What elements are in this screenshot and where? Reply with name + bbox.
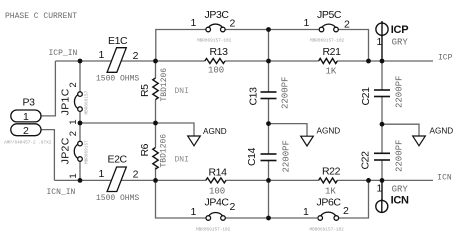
- svg-text:2: 2: [230, 201, 236, 213]
- svg-text:MBR069157-102: MBR069157-102: [310, 228, 345, 233]
- svg-text:GRY: GRY: [392, 184, 409, 194]
- svg-text:C21: C21: [360, 87, 372, 106]
- svg-text:AGND: AGND: [317, 127, 341, 136]
- svg-text:JP4C: JP4C: [205, 197, 230, 209]
- svg-text:1: 1: [377, 182, 383, 194]
- svg-text:1: 1: [377, 36, 383, 48]
- svg-text:JP2C: JP2C: [59, 137, 71, 164]
- svg-text:MBR069157-102: MBR069157-102: [197, 39, 232, 44]
- svg-text:1: 1: [68, 173, 79, 178]
- svg-text:1500 OHMS: 1500 OHMS: [96, 75, 139, 84]
- svg-text:ICN_IN: ICN_IN: [47, 188, 76, 197]
- svg-text:ICN: ICN: [437, 174, 452, 183]
- svg-text:C13: C13: [248, 87, 260, 106]
- svg-text:1: 1: [303, 206, 309, 218]
- svg-text:2: 2: [23, 125, 29, 137]
- svg-text:2200PF: 2200PF: [282, 140, 292, 172]
- svg-text:TBD1206: TBD1206: [160, 134, 169, 168]
- svg-text:AGND: AGND: [203, 127, 227, 136]
- svg-text:1: 1: [99, 49, 105, 61]
- svg-text:1K: 1K: [326, 67, 337, 77]
- svg-text:MBR069157-102: MBR069157-102: [196, 228, 231, 233]
- svg-text:MBR069157-102: MBR069157-102: [310, 39, 345, 44]
- svg-text:ICP: ICP: [391, 24, 408, 36]
- svg-text:1500 OHMS: 1500 OHMS: [96, 194, 139, 203]
- svg-text:2200PF: 2200PF: [281, 77, 291, 109]
- svg-text:AMP/640457-2 .87X2: AMP/640457-2 .87X2: [4, 141, 52, 146]
- svg-text:JP1C: JP1C: [59, 88, 71, 115]
- svg-text:100: 100: [209, 187, 225, 197]
- svg-text:DNI: DNI: [175, 156, 189, 165]
- svg-text:2: 2: [68, 131, 79, 136]
- svg-text:JP6C: JP6C: [317, 197, 342, 209]
- svg-text:2: 2: [68, 82, 79, 87]
- svg-text:TBD1206: TBD1206: [160, 68, 169, 102]
- svg-text:MBR069157: MBR069157: [85, 90, 90, 114]
- svg-text:R21: R21: [323, 46, 342, 58]
- svg-text:R13: R13: [210, 46, 229, 58]
- svg-text:1: 1: [304, 17, 310, 29]
- svg-text:AGND: AGND: [430, 127, 454, 136]
- svg-text:1: 1: [23, 111, 29, 123]
- svg-text:1: 1: [99, 168, 105, 180]
- svg-text:1: 1: [191, 206, 197, 218]
- svg-text:2: 2: [133, 50, 139, 62]
- svg-text:2: 2: [344, 19, 350, 31]
- svg-text:C14: C14: [246, 147, 258, 166]
- svg-text:C22: C22: [360, 151, 372, 170]
- svg-text:ICP: ICP: [438, 54, 453, 63]
- svg-text:P3: P3: [23, 97, 36, 109]
- svg-text:R6: R6: [139, 143, 151, 156]
- svg-text:2: 2: [133, 169, 139, 181]
- svg-text:ICN: ICN: [391, 194, 409, 206]
- svg-text:2: 2: [230, 18, 236, 30]
- svg-text:2200PF: 2200PF: [395, 76, 405, 108]
- svg-text:1: 1: [68, 120, 79, 125]
- svg-text:2200PF: 2200PF: [395, 140, 405, 172]
- svg-text:100: 100: [208, 66, 224, 76]
- svg-text:PHASE C CURRENT: PHASE C CURRENT: [5, 12, 77, 21]
- svg-text:JP5C: JP5C: [317, 9, 342, 21]
- svg-text:R5: R5: [139, 84, 151, 97]
- svg-text:GRY: GRY: [392, 37, 409, 47]
- svg-text:1: 1: [191, 17, 197, 29]
- svg-text:R14: R14: [209, 167, 228, 179]
- svg-text:R22: R22: [322, 166, 341, 178]
- svg-text:ICP_IN: ICP_IN: [49, 49, 78, 58]
- svg-text:E1C: E1C: [108, 35, 128, 47]
- svg-text:E2C: E2C: [108, 154, 128, 166]
- svg-text:DNI: DNI: [175, 87, 189, 96]
- svg-text:JP3C: JP3C: [205, 9, 230, 21]
- svg-text:2: 2: [343, 205, 349, 217]
- svg-text:1K: 1K: [325, 187, 336, 197]
- svg-text:MBR069157: MBR069157: [85, 140, 90, 164]
